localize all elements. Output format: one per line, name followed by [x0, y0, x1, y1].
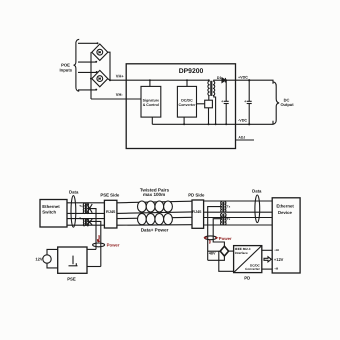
svg-text:max 100m: max 100m	[143, 192, 165, 197]
wire PD out+	[262, 249, 273, 251]
arrow power PSE (red)	[97, 235, 100, 242]
red squiggle below ellipse PD	[208, 240, 211, 244]
wire secondary top	[214, 79, 222, 82]
data direction ellipse right	[255, 195, 260, 223]
wire VH+ bus	[108, 52, 110, 80]
wire VH+	[108, 79, 209, 80]
svg-text:Power: Power	[219, 236, 232, 241]
block Signature & Control U1a	[141, 86, 161, 117]
arrow 12V output	[264, 257, 271, 262]
wire tap A to bridge left	[208, 250, 221, 252]
svg-text:Data+ Power: Data+ Power	[141, 227, 169, 232]
junction DC/DC top	[186, 79, 188, 81]
svg-text:Ethernet: Ethernet	[276, 204, 294, 209]
wire PD out-	[262, 268, 273, 270]
svg-text:Data: Data	[252, 189, 262, 194]
svg-text:Output: Output	[280, 102, 294, 107]
capacitor C1	[224, 80, 229, 124]
wire VH- bus	[90, 52, 92, 99]
wire source top	[47, 249, 58, 254]
junction primary top	[208, 79, 210, 81]
wire ADJ	[236, 139, 254, 141]
twisted pair row2	[138, 214, 173, 225]
transformer T1 PD	[221, 202, 226, 212]
junction VH+	[109, 79, 111, 81]
svg-text:-48: -48	[274, 268, 278, 271]
wire stub DC/DC bottom	[183, 117, 185, 124]
junction S&C top	[149, 79, 151, 81]
junction secondary bottom	[215, 123, 217, 125]
block PSE	[58, 247, 87, 273]
wire source bottom	[47, 263, 58, 268]
wire secondary bottom	[214, 96, 216, 125]
svg-text:ADJ: ADJ	[238, 135, 245, 139]
svg-text:Tx: Tx	[227, 217, 231, 221]
wire stub DC/DC top	[186, 80, 188, 86]
svg-text:+12V: +12V	[274, 257, 284, 262]
junction D1 cathode	[225, 79, 227, 81]
junction C2 top	[248, 79, 250, 81]
svg-text:12V: 12V	[35, 257, 42, 262]
wire data pair1 line1 (switch to RJ45)	[67, 202, 104, 204]
data direction ellipse left	[71, 196, 76, 228]
svg-text:& Control: & Control	[143, 103, 159, 107]
svg-text:Interface: Interface	[235, 251, 248, 255]
wire power tap A (PD)	[208, 207, 222, 261]
twisted pair row1	[138, 201, 173, 212]
svg-text:PSE Side: PSE Side	[100, 193, 119, 198]
wire BR3 out-	[219, 251, 234, 271]
transformer T2 PD	[221, 213, 227, 225]
block PD interface	[234, 246, 262, 273]
junction switch bottom	[208, 123, 210, 125]
block DC/DC Converter U1b	[177, 86, 196, 117]
bridge rectifier BR2	[92, 70, 108, 86]
svg-text:Tx: Tx	[79, 216, 83, 220]
svg-text:DP9200: DP9200	[179, 68, 204, 75]
wire DC/DC to switch	[197, 103, 205, 105]
wire input L4	[78, 89, 96, 91]
svg-text:Converter: Converter	[245, 267, 260, 271]
wire data pair1 line2	[67, 212, 104, 214]
wire power tap A (PSE)	[87, 209, 96, 250]
wire data PD line3	[204, 217, 273, 219]
svg-text:RJ45: RJ45	[192, 209, 202, 214]
wire data PD line4	[204, 224, 273, 226]
svg-text:Tx: Tx	[227, 205, 231, 209]
arrow before Power label PD (red)	[216, 237, 219, 239]
wire power tap B (PSE)	[87, 221, 101, 266]
svg-text:VH-: VH-	[116, 92, 124, 97]
wire twisted pair2 line1	[117, 217, 192, 218]
transformer T1	[208, 81, 215, 96]
wire power tap B (PD)	[213, 219, 224, 247]
svg-text:RJ45: RJ45	[106, 209, 116, 214]
arrow power PD (red)	[204, 237, 207, 239]
svg-text:+48: +48	[274, 249, 279, 252]
brace POE inputs	[74, 39, 80, 91]
junction BR2 left	[90, 78, 92, 80]
switch symbol inside PSE	[69, 256, 78, 266]
wire below bridge	[208, 256, 225, 260]
svg-text:+VDC: +VDC	[238, 76, 248, 80]
block Ethernet Device	[272, 198, 300, 273]
svg-text:Power: Power	[107, 243, 120, 248]
svg-text:Switch: Switch	[42, 209, 56, 214]
wire stub S&C bottom	[151, 117, 153, 124]
wire PSE out top	[87, 248, 96, 250]
transformer T2 PSE	[83, 219, 92, 226]
wire data PD line1	[204, 200, 273, 202]
svg-text:PD Side: PD Side	[188, 192, 205, 197]
wire input L3	[78, 71, 97, 73]
wire data pair2 line2	[67, 224, 104, 226]
IC DP9200 box	[126, 64, 235, 149]
connector RJ45 PSE	[104, 200, 117, 228]
wire stub S&C top	[149, 80, 151, 86]
connector RJ45 PD	[192, 200, 204, 228]
svg-text:Tx: Tx	[79, 204, 83, 208]
power ellipse PSE	[93, 243, 105, 247]
brace DC output	[273, 82, 279, 124]
transformer T1 PSE	[83, 203, 92, 213]
power ellipse PD	[205, 236, 217, 240]
bridge rectifier BR1	[92, 44, 108, 60]
wire data pair2 line1	[67, 218, 104, 220]
svg-text:D1: D1	[217, 76, 222, 80]
junction C1 bottom	[225, 123, 227, 125]
svg-text:Inputs: Inputs	[60, 68, 73, 73]
wire switch bottom	[208, 108, 210, 125]
bridge rectifier BR3	[220, 246, 228, 256]
wire twisted pair1 line2	[117, 212, 192, 214]
svg-text:Data: Data	[69, 189, 79, 194]
wire input L1	[78, 42, 98, 44]
source 48V input	[43, 255, 51, 263]
switch Q1	[205, 100, 213, 108]
svg-text:Device: Device	[278, 210, 292, 215]
wire twisted pair2 line2	[117, 224, 192, 227]
block Ethernet Switch	[40, 200, 67, 228]
svg-text:PD: PD	[244, 275, 250, 280]
junction DC/DC bottom	[183, 123, 185, 125]
svg-text:Ethernet: Ethernet	[42, 204, 60, 209]
wire VH-	[91, 98, 142, 100]
wire +VDC rail	[225, 80, 273, 84]
wire PSE out bottom	[87, 266, 101, 268]
wire input L2	[78, 61, 96, 63]
diode D1	[222, 78, 225, 83]
wire primary bottom to switch	[208, 96, 210, 101]
svg-text:VH+: VH+	[116, 73, 125, 78]
wire primary top stub	[208, 79, 210, 82]
junction dots bridge inputs	[95, 42, 98, 90]
svg-text:-VDC: -VDC	[238, 118, 247, 122]
svg-text:Converter: Converter	[179, 103, 197, 107]
junction C2 bottom	[248, 123, 250, 125]
svg-text:48V: 48V	[209, 251, 216, 255]
svg-text:PSE: PSE	[67, 277, 76, 282]
capacitor C2	[247, 80, 252, 124]
wire twisted pair1 line1	[117, 201, 192, 203]
wire -VDC rail	[152, 121, 273, 125]
wire BR3 out+	[229, 250, 234, 252]
wire data PD line2	[204, 211, 273, 213]
